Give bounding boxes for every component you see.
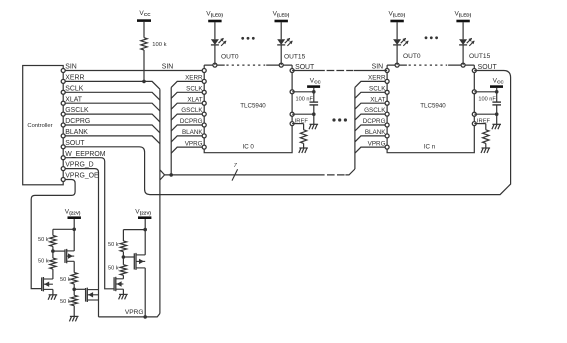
resistor R5 50k: [60, 295, 77, 305]
wire VPRG output line: [99, 314, 160, 317]
resistor R6 50k: [108, 241, 127, 252]
wire XLAT stub to IC0 pin: [171, 103, 204, 109]
IC0 pin DCPRG circle: [202, 123, 206, 127]
ICn pin GND circle: [472, 112, 476, 116]
label SOUT (ICn): [478, 64, 498, 71]
IC0 pin XLAT circle: [202, 101, 206, 105]
label IREF IC0: [295, 118, 309, 124]
resistor R3 50k: [38, 258, 56, 269]
wire Q6 gate lead: [123, 256, 134, 258]
LED D2 light arrows: [285, 38, 293, 46]
ICn pin SCLK circle: [385, 90, 389, 94]
wire Q6 source to VPRG node: [144, 268, 146, 317]
ICn pin VPRG circle: [385, 145, 389, 149]
resistor R_IREF ICn: [483, 130, 489, 144]
wire divider drop right: [122, 230, 124, 241]
label bus width 7: [234, 163, 238, 169]
svg-text:50 k: 50 k: [38, 237, 49, 243]
svg-text:(LED): (LED): [459, 13, 472, 18]
svg-text:GSCLK: GSCLK: [65, 107, 89, 114]
svg-text:IC n: IC n: [424, 144, 436, 151]
label OUT15 (ICn): [469, 53, 491, 60]
svg-text:50 k: 50 k: [108, 266, 119, 272]
svg-text:BLANK: BLANK: [65, 129, 88, 136]
svg-text:SCLK: SCLK: [369, 85, 386, 92]
wire SCLK stub to ICn pin: [355, 92, 387, 98]
wire XLAT: controller to bus bundle: [63, 103, 160, 111]
junction R4-R5-Q4gate node: [72, 288, 76, 292]
wire SOUT IC0 to SIN ICn (solid right): [354, 70, 387, 72]
LED D4 on ICn OUT15: [459, 22, 467, 65]
label 100 nF ICn: [478, 96, 496, 102]
wire 7-signal bus (dashed continuation): [317, 174, 345, 176]
wire V22 right to divider: [123, 229, 145, 231]
bus width slash: [232, 169, 238, 180]
svg-text:VPRG: VPRG: [185, 140, 203, 147]
label VPRG_OE at controller: [65, 173, 99, 180]
svg-text:W_EEPROM: W_EEPROM: [65, 151, 105, 158]
wire bundle merge into bus (upper branch): [160, 170, 165, 175]
IC0 pin GND circle: [290, 112, 294, 116]
junction VCC node ICn: [495, 90, 499, 94]
wire XERR: controller to bus bundle: [63, 81, 160, 89]
junction divider mid left: [51, 249, 55, 253]
svg-text:VPRG_OE: VPRG_OE: [65, 173, 99, 180]
ground below R5: [69, 306, 78, 322]
ground below Q2: [48, 289, 57, 299]
svg-text:IREF: IREF: [477, 118, 491, 124]
wire R4 to node: [73, 284, 75, 295]
wire R6-R7 link: [122, 252, 124, 265]
wire XLAT stub to ICn pin: [355, 103, 387, 109]
svg-text:DCPRG: DCPRG: [363, 118, 386, 125]
label XERR at IC0: [185, 75, 203, 82]
junction GND node ICn: [495, 112, 499, 116]
op-amp U1 — IC0 TLC5940 outline: [204, 65, 292, 153]
svg-text:GSCLK: GSCLK: [364, 107, 386, 114]
svg-text:OUT0: OUT0: [403, 53, 421, 60]
label XLAT at ICn: [370, 96, 385, 103]
resistor R7 50k: [108, 265, 127, 276]
label SIN at ICn: [372, 64, 384, 71]
svg-text:DCPRG: DCPRG: [180, 118, 203, 125]
svg-text:100 nF: 100 nF: [478, 96, 496, 102]
label IREF ICn: [477, 118, 491, 124]
label XERR at controller: [65, 75, 84, 82]
label DCPRG at ICn: [363, 118, 386, 125]
ICn pin IREF circle: [472, 122, 476, 126]
svg-text:BLANK: BLANK: [365, 129, 386, 136]
svg-text:CC: CC: [144, 12, 151, 17]
svg-text:XERR: XERR: [368, 75, 386, 82]
ellipsis dots between IC0 and ICn: [332, 118, 347, 121]
junction divider mid right: [122, 255, 126, 259]
wire BLANK stub to ICn pin: [355, 136, 387, 142]
svg-text:(22V): (22V): [140, 210, 152, 215]
label SCLK at controller: [65, 85, 83, 92]
wire R7 to Q5 drain: [122, 275, 124, 279]
LED D3 on ICn OUT0: [393, 22, 401, 65]
wire XERR stub to IC0 pin: [171, 81, 204, 87]
ICn pin BLANK circle: [385, 134, 389, 138]
wire 7-signal bus (left solid segment): [165, 174, 317, 176]
wire SOUT IC0 to SIN ICn (dashed): [327, 70, 354, 72]
transistor Q2 (lower left FET, VPRG_OE gate): [42, 277, 53, 291]
LED D1 light arrows: [219, 38, 227, 46]
label OUT0 (ICn): [403, 53, 421, 60]
ground below cap ICn: [492, 114, 501, 129]
wire VPRG_D: controller down to FET Q4 rail: [63, 169, 98, 317]
wire BLANK stub to IC0 pin: [171, 136, 204, 142]
wire GSCLK stub to ICn pin: [355, 114, 387, 120]
IC0 pin VCC circle: [290, 90, 294, 94]
svg-text:SIN: SIN: [162, 64, 174, 71]
svg-text:OUT15: OUT15: [284, 54, 306, 61]
resistor R2 50k: [38, 235, 56, 246]
label VPRG at IC0: [185, 140, 203, 147]
wire IREF pin IC0: [292, 124, 304, 130]
label OUT0 (IC0): [221, 54, 239, 61]
capacitor C 100nF ICn: [492, 92, 501, 114]
label XERR at ICn: [368, 75, 386, 82]
wire DCPRG stub to IC0 pin: [171, 125, 204, 131]
power symbol V(22V) left: [65, 208, 81, 217]
wire SOUT IC0 to SIN ICn (solid left): [292, 70, 325, 72]
svg-text:VPRG: VPRG: [125, 309, 144, 316]
svg-text:VPRG: VPRG: [368, 140, 386, 147]
svg-text:(LED): (LED): [211, 13, 224, 18]
wire SCLK stub to IC0 pin: [171, 92, 204, 98]
ICn pin VCC circle: [472, 90, 476, 94]
svg-text:OUT15: OUT15: [469, 53, 491, 60]
junction VCC node IC0: [312, 90, 316, 94]
svg-text:BLANK: BLANK: [182, 129, 203, 136]
ICn pin SIN circle: [385, 69, 389, 73]
IC0 pin OUT0 circle: [213, 63, 217, 67]
IC0 pin SCLK circle: [202, 90, 206, 94]
junction on XERR net at pull-up: [142, 80, 146, 84]
label OUT15 (IC0): [284, 54, 306, 61]
LED D4 light arrows: [467, 38, 475, 46]
label TLC5940 (IC0): [240, 102, 266, 109]
LED D3 light arrows: [401, 38, 409, 46]
wire ICn riser from bus: [354, 87, 356, 169]
label TLC5940 (ICn): [420, 102, 446, 109]
label VPRG_D at controller: [65, 162, 93, 169]
wire IREF pin ICn: [474, 124, 486, 130]
label SIN at controller: [65, 64, 77, 71]
wire BLANK: controller to bus bundle: [63, 136, 160, 144]
svg-text:CC: CC: [314, 80, 321, 85]
label SCLK at ICn: [369, 85, 386, 92]
junction VPRG output node: [143, 315, 147, 319]
power symbol V(LED) above IC0 OUT15: [273, 11, 290, 22]
wire VCC bar to resistor: [143, 22, 145, 38]
IC0 pin GSCLK circle: [202, 112, 206, 116]
label 100 nF IC0: [296, 96, 314, 102]
junction V22 left node: [72, 228, 76, 232]
wire divider drop left: [52, 229, 54, 235]
wire SOUT return: ICn SOUT to controller SOUT: [63, 71, 510, 195]
svg-text:IC 0: IC 0: [243, 144, 255, 151]
ground below IREF resistor IC0: [299, 143, 308, 153]
svg-text:VPRG_D: VPRG_D: [65, 162, 93, 169]
IC0 pin XERR circle: [202, 79, 206, 83]
svg-text:SOUT: SOUT: [65, 140, 85, 147]
LED D1 on IC0 OUT0: [211, 22, 219, 65]
svg-text:50 k: 50 k: [60, 299, 71, 305]
wire VCC pin ICn: [474, 91, 496, 93]
svg-text:CC: CC: [497, 80, 504, 85]
svg-text:IREF: IREF: [295, 118, 309, 124]
wire VPRG stub to ICn pin: [355, 147, 387, 153]
label IC 0: [243, 144, 255, 151]
power symbol VCC at IC0: [307, 78, 321, 87]
junction GND node IC0: [312, 112, 316, 116]
label GSCLK at IC0: [181, 107, 203, 114]
label BLANK at controller: [65, 129, 88, 136]
wire VCC bar drop ICn: [496, 88, 498, 92]
capacitor C 100nF IC0: [310, 92, 319, 114]
wire V22 left rail: [73, 219, 75, 251]
wire SCLK: controller to bus bundle: [63, 92, 160, 100]
wire IC0 riser from bus: [170, 87, 172, 174]
junction bus at IC0 riser: [169, 173, 173, 177]
svg-text:100 nF: 100 nF: [296, 96, 314, 102]
svg-text:XLAT: XLAT: [370, 96, 385, 103]
label XLAT at controller: [65, 96, 83, 103]
svg-text:SIN: SIN: [65, 64, 77, 71]
IC0 pin OUT15 circle: [279, 63, 283, 67]
label SIN at IC0: [162, 64, 174, 71]
label BLANK at ICn: [365, 129, 386, 136]
IC0 pin SOUT circle: [290, 69, 294, 73]
wire Q4 gate lead: [74, 288, 85, 290]
resistor R_IREF IC0: [300, 130, 306, 144]
label SOUT (IC0): [295, 64, 315, 71]
junction V22 right node: [143, 228, 147, 232]
label GSCLK at ICn: [364, 107, 386, 114]
transistor Q4 (output FET left): [86, 288, 99, 302]
label IC n: [424, 144, 436, 151]
resistor R1 100k pull-up: [141, 38, 167, 50]
IC0 pin VPRG circle: [202, 145, 206, 149]
ICn pin SOUT circle: [472, 69, 476, 73]
wire VCC pin IC0: [292, 91, 314, 93]
svg-text:SCLK: SCLK: [65, 85, 83, 92]
label VPRG net: [125, 309, 144, 316]
svg-text:(22V): (22V): [69, 210, 81, 215]
wire 7-signal bus (right segment to ICn riser): [345, 169, 355, 175]
wire W_EEPROM: controller to FET Q5 gate: [63, 158, 114, 289]
wire SIN: controller to IC0: [63, 70, 204, 72]
ICn pin XERR circle: [385, 79, 389, 83]
ICn pin GSCLK circle: [385, 112, 389, 116]
svg-text:100 k: 100 k: [152, 42, 166, 48]
svg-text:XLAT: XLAT: [187, 96, 202, 103]
svg-text:50 k: 50 k: [60, 277, 71, 283]
wire Q1 source to R4: [73, 261, 75, 272]
svg-text:TLC5940: TLC5940: [240, 102, 266, 109]
wire Q1 gate lead: [53, 250, 65, 252]
ICn pin OUT15 circle: [461, 63, 465, 67]
label DCPRG at controller: [65, 118, 90, 125]
wire GSCLK: controller to bus bundle: [63, 114, 160, 122]
label W_EEPROM at controller: [65, 151, 105, 158]
svg-text:50 k: 50 k: [108, 242, 119, 248]
wire V22 right rail: [144, 219, 146, 255]
wire GND pin IC0: [292, 113, 314, 115]
svg-text:OUT0: OUT0: [221, 54, 239, 61]
label XLAT at IC0: [187, 96, 202, 103]
controller pin circles: [61, 69, 65, 182]
wire R2-R3 link: [52, 246, 54, 258]
IC0 pin IREF circle: [290, 122, 294, 126]
svg-text:SCLK: SCLK: [186, 85, 203, 92]
label BLANK at IC0: [182, 129, 203, 136]
label SCLK at IC0: [186, 85, 203, 92]
svg-text:50 k: 50 k: [38, 259, 49, 265]
transistor Q1 (upper left FET): [65, 249, 74, 263]
svg-text:XERR: XERR: [185, 75, 203, 82]
svg-text:XERR: XERR: [65, 75, 84, 82]
label VPRG at ICn: [368, 140, 386, 147]
power symbol V(LED) above IC0 OUT0: [206, 11, 223, 22]
wire XERR stub to ICn pin: [355, 81, 387, 87]
svg-text:SIN: SIN: [372, 64, 384, 71]
label SOUT at controller: [65, 140, 85, 147]
wire V22 left to divider: [53, 228, 74, 230]
power symbol V(22V) right: [135, 208, 151, 217]
controller box (Controller): [23, 66, 64, 185]
svg-text:XLAT: XLAT: [65, 96, 83, 103]
wire GND pin ICn: [474, 113, 496, 115]
wire 100k resistor to XERR net: [143, 50, 145, 81]
power symbol V(LED) above ICn OUT0: [389, 11, 406, 22]
wire bus bundle vertical (controller signals + VPRG riser): [159, 89, 161, 313]
wire VPRG riser merge into bus (lower branch): [160, 175, 165, 180]
ground below cap IC0: [309, 114, 318, 129]
svg-text:DCPRG: DCPRG: [65, 118, 90, 125]
wire R3 to Q2 drain: [52, 269, 54, 279]
wire VPRG_OE: controller to FET Q2 gate: [31, 180, 75, 289]
IC0 pin SIN circle: [202, 69, 206, 73]
ground below Q5: [119, 289, 128, 299]
LED D2 on IC0 OUT15: [277, 22, 285, 65]
ground below IREF resistor ICn: [481, 143, 490, 153]
wire DCPRG stub to ICn pin: [355, 125, 387, 131]
power symbol VCC at ICn: [490, 78, 504, 87]
ICn pin DCPRG circle: [385, 123, 389, 127]
svg-text:(LED): (LED): [393, 13, 406, 18]
svg-text:TLC5940: TLC5940: [420, 102, 446, 109]
wire VPRG stub to IC0 pin: [171, 147, 204, 153]
wire GSCLK stub to IC0 pin: [171, 114, 204, 120]
power symbol VCC (top pull-up supply): [137, 10, 151, 20]
ellipsis dots between ICn LEDs: [425, 36, 438, 39]
resistor R4 50k: [60, 273, 77, 285]
wire VCC bar drop IC0: [313, 88, 315, 92]
label DCPRG at IC0: [180, 118, 203, 125]
label GSCLK at controller: [65, 107, 89, 114]
ICn pin OUT0 circle: [395, 63, 399, 67]
ICn pin XLAT circle: [385, 101, 389, 105]
svg-text:Controller: Controller: [27, 123, 52, 129]
ellipsis dots between IC0 LEDs: [241, 37, 254, 40]
svg-text:(LED): (LED): [277, 13, 290, 18]
wire DCPRG: controller to bus bundle: [63, 125, 160, 133]
power symbol V(LED) above ICn OUT15: [455, 11, 472, 22]
transistor Q6 (output FET right): [134, 253, 145, 270]
transistor Q5 (lower right FET, W_EEPROM gate): [114, 277, 123, 291]
IC0 pin BLANK circle: [202, 134, 206, 138]
op-amp U2 — ICn TLC5940 outline: [387, 65, 474, 153]
svg-text:GSCLK: GSCLK: [181, 107, 203, 114]
